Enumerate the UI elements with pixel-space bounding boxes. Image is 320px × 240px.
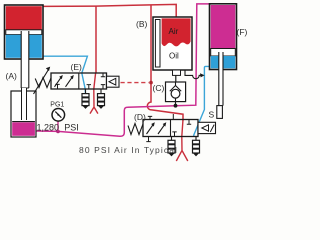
wire black: tank B bottom to blue line with crossover hop and arrow	[185, 70, 205, 79]
valve D blocked port T symbols	[172, 120, 191, 137]
junction dot below check valve C	[174, 104, 178, 108]
wire red: drop to valve E top port	[95, 6, 97, 73]
svg-text:Oil: Oil	[169, 52, 179, 61]
air line blue: cylinder A rod end to valve E	[43, 56, 87, 93]
intensifier cylinder	[11, 91, 36, 137]
cylinder F piston rod	[219, 52, 223, 106]
svg-text:(A): (A)	[6, 71, 18, 81]
check valve C	[166, 82, 186, 102]
label Air	[169, 27, 179, 36]
label (D)	[134, 112, 146, 122]
valve E adjustment arrow	[34, 67, 51, 94]
cylinder F barrel	[210, 4, 237, 70]
wire red: drop left of tank B to pilot junction and hook to valve D	[147, 5, 183, 121]
junction dot pilot branch	[149, 81, 153, 85]
svg-text:(F): (F)	[237, 27, 248, 37]
valve D pilot box with override	[198, 122, 216, 133]
label (C)	[153, 83, 165, 93]
label (B)	[136, 19, 148, 29]
valve D bottom supply stub	[146, 137, 150, 142]
wire black: tank B to check valve C	[175, 75, 177, 82]
wire red: flow path inside valve D and exhaust below	[176, 120, 188, 162]
label (E)	[71, 62, 83, 72]
valve E spring	[35, 78, 51, 88]
air line blue: cylinder F rod end down to valve D	[194, 66, 210, 136]
cylinder A barrel	[5, 5, 44, 59]
svg-text:(E): (E)	[71, 62, 83, 72]
muffler 3 under valve D	[168, 137, 175, 157]
label Oil	[169, 52, 179, 61]
oil line magenta: intensifier to junction to cylinder F	[36, 4, 210, 136]
valve D spring	[128, 124, 143, 135]
svg-text:PSI: PSI	[64, 123, 79, 133]
tank B	[153, 17, 192, 75]
valve D left box arrows	[147, 122, 167, 134]
valve E body	[51, 73, 107, 89]
intensifier ram rod	[22, 88, 27, 120]
svg-text:S: S	[209, 110, 215, 120]
junction dot gauge tap	[56, 130, 60, 134]
svg-text:80 PSI Air In Typical: 80 PSI Air In Typical	[79, 145, 178, 155]
valve E air pilot box	[107, 76, 120, 87]
svg-text:(C): (C)	[153, 83, 165, 93]
gauge PG1	[52, 109, 65, 132]
valve E left box arrows	[55, 75, 74, 87]
label 80 PSI Air In Typical	[79, 145, 178, 155]
pilot line red dashed to valve E pilot	[121, 82, 149, 84]
limit stop S	[217, 106, 223, 119]
label (F)	[237, 27, 248, 37]
cylinder A piston rod	[21, 31, 29, 88]
wire red: flow path inside valve E and exhaust below	[90, 73, 98, 114]
muffler 1 under valve E	[82, 89, 89, 109]
valve E blocked port T symbols	[55, 73, 105, 89]
label PG1	[50, 102, 64, 109]
label 1,280 PSI	[37, 123, 79, 133]
air line red: top run from cylinder A to tank B	[44, 4, 177, 16]
wire black: check valve C to oil line junction	[175, 102, 177, 106]
svg-text:(D): (D)	[134, 112, 146, 122]
muffler 2 under valve E	[98, 89, 105, 109]
svg-text:(B): (B)	[136, 19, 148, 29]
svg-text:PG1: PG1	[50, 102, 64, 109]
svg-text:1,280: 1,280	[37, 123, 60, 133]
svg-text:Air: Air	[169, 27, 179, 36]
label (A)	[6, 71, 18, 81]
label S	[209, 110, 215, 120]
valve D top port stubs	[148, 114, 174, 120]
muffler 4 under valve D	[193, 137, 200, 157]
valve D body	[143, 120, 198, 137]
